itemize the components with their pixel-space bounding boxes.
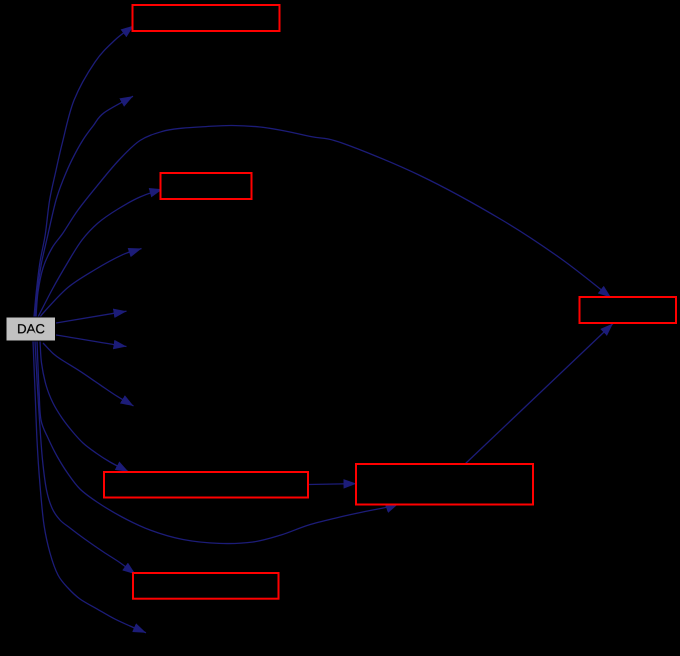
- edge DAC->box6: [35, 341, 136, 574]
- edge DAC->box4: [40, 341, 129, 472]
- edge box4->box5: [309, 483, 357, 486]
- edge DAC->hidden node 6: [43, 343, 134, 406]
- node box4: [104, 472, 308, 498]
- node box6: [133, 573, 279, 599]
- edge DAC->box2: [38, 189, 163, 317]
- node box3: [580, 297, 677, 323]
- edge DAC->hidden node 2: [35, 96, 133, 317]
- label DAC: [18, 324, 44, 333]
- edge DAC->box3 (long top curve): [36, 125, 611, 317]
- edge DAC->hidden node 5: [56, 335, 127, 347]
- node box5: [356, 464, 533, 505]
- edge DAC->hidden node 3: [40, 249, 142, 318]
- edge DAC->box1: [34, 26, 134, 318]
- node DAC: [6, 317, 56, 341]
- edge DAC->hidden node 4: [56, 311, 127, 323]
- node box1: [133, 5, 280, 31]
- edge DAC->box5 (low sweep curve): [37, 341, 399, 544]
- edge DAC->hidden node 7 (bottom): [33, 341, 146, 633]
- edge box5->box3: [465, 324, 614, 465]
- node box2: [161, 173, 252, 199]
